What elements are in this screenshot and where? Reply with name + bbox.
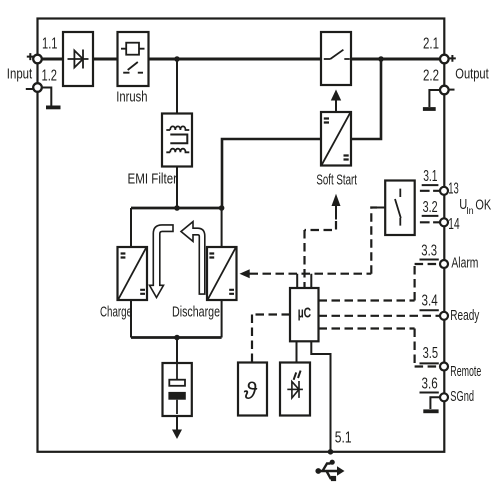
terminal bar 3.4 (420, 309, 439, 311)
node junction battery (174, 335, 180, 341)
ground sgnd (430, 397, 440, 409)
wire relay lead (377, 207, 385, 209)
svg-text:3.2: 3.2 (423, 199, 438, 216)
temp sensor box (238, 363, 267, 416)
wire EMI drop (176, 59, 178, 208)
svg-text:Output: Output (455, 65, 489, 82)
LED box (280, 363, 310, 416)
svg-text:14: 14 (448, 216, 459, 233)
terminal bar 3.2 (422, 215, 439, 217)
node junction 5.1 (328, 449, 334, 455)
svg-text:3.6: 3.6 (422, 376, 438, 393)
wire charge/discharge top bus (131, 207, 222, 210)
svg-text:EMI Filter: EMI Filter (128, 171, 178, 188)
plus sign output (449, 55, 456, 62)
minus sign output (449, 89, 455, 91)
terminal 2.1 (440, 55, 449, 64)
wire discharge drop (221, 208, 223, 338)
EMI filter box (162, 114, 192, 167)
terminal sgnd (440, 393, 448, 401)
svg-text:Discharge: Discharge (172, 303, 220, 320)
svg-text:Remote: Remote (450, 363, 481, 380)
battery box (163, 363, 192, 416)
ground input (42, 88, 51, 106)
terminal bar 3.3 (420, 259, 439, 261)
svg-text:3.5: 3.5 (423, 345, 439, 362)
wire main input line (42, 58, 440, 61)
node junction at soft-start output (378, 56, 384, 62)
microcontroller U3 box (290, 288, 319, 341)
svg-text:2.2: 2.2 (423, 67, 439, 84)
hollow arrow discharge direction (181, 222, 205, 295)
svg-text:3.1: 3.1 (423, 168, 437, 185)
terminal bar 3.1 (422, 184, 439, 186)
svg-text:Charge: Charge (100, 303, 132, 320)
svg-text:3.4: 3.4 (422, 293, 438, 310)
terminal ready (440, 312, 448, 320)
terminal 1.2 (33, 83, 42, 92)
svg-text:SGnd: SGnd (450, 388, 474, 405)
node junction at EMI tap (174, 56, 180, 62)
minus sign input (26, 88, 33, 90)
plus sign input (27, 53, 34, 60)
dashed soft start control (305, 221, 337, 288)
svg-text:Soft Start: Soft Start (316, 171, 357, 188)
svg-text:5.1: 5.1 (335, 429, 352, 446)
discharge converter box (207, 247, 237, 300)
ground output (429, 90, 440, 107)
svg-text:Ready: Ready (450, 307, 479, 324)
svg-text:2.1: 2.1 (423, 35, 439, 52)
terminal 13 (440, 187, 448, 195)
wire battery drop (176, 338, 178, 364)
hollow arrow charge direction (150, 225, 174, 298)
svg-text:13: 13 (448, 181, 459, 198)
svg-text:In: In (466, 205, 474, 217)
svg-text:ϑ: ϑ (244, 378, 258, 405)
arrow external battery (176, 416, 178, 430)
terminal remote (440, 363, 448, 371)
terminal 2.2 (440, 86, 449, 95)
dashed alarm line (319, 264, 441, 301)
charge converter box (118, 247, 148, 300)
usb port icon (317, 464, 338, 479)
terminal bar 3.5 (420, 362, 439, 364)
wire uC top stubs (297, 274, 311, 288)
terminal 14 (440, 218, 448, 226)
dashed relay contact line 13 (420, 190, 440, 192)
dashed relay contact line 14 (420, 221, 440, 223)
svg-text:3.3: 3.3 (421, 242, 437, 259)
soft start converter U2 box (321, 112, 351, 166)
terminal bar 3.6 (420, 392, 439, 394)
svg-text:1.1: 1.1 (42, 35, 58, 52)
terminal alarm (440, 260, 448, 268)
enclosure border (38, 19, 445, 452)
arrow soft start control head (332, 194, 341, 206)
wire uC to LED (296, 341, 298, 362)
dashed temp sensor line (252, 315, 290, 363)
svg-text:Inrush: Inrush (116, 89, 147, 106)
svg-text:Alarm: Alarm (451, 255, 478, 272)
wire charge drop (130, 208, 132, 338)
svg-text:µC: µC (298, 306, 312, 322)
inrush relay box (118, 32, 149, 86)
arrow switch control (335, 101, 337, 113)
wire uC to port 5.1 (311, 341, 330, 452)
node junction bus-softstart (219, 205, 225, 211)
dashed remote line (319, 329, 441, 367)
arrowhead to discharge (240, 269, 250, 278)
relay UIn OK box (385, 181, 415, 236)
output relay switch box (321, 32, 351, 85)
node junction bus-EMI (174, 205, 180, 211)
svg-text:OK: OK (475, 196, 491, 213)
svg-text:1.2: 1.2 (42, 68, 58, 85)
wire soft start loop (222, 59, 381, 208)
dashed relay feed (371, 208, 377, 274)
dashed control bus to discharge (250, 208, 441, 367)
dashed ready line (319, 315, 441, 317)
wire battery bus (131, 336, 222, 339)
diode D1 box (63, 32, 93, 86)
terminal 1.1 (33, 55, 42, 64)
svg-text:Input: Input (7, 65, 33, 82)
